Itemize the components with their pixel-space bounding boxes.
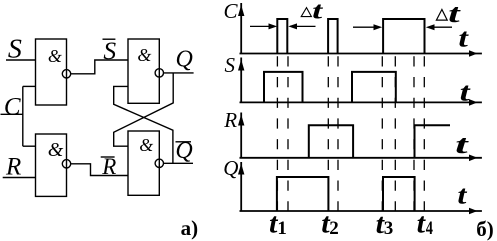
svg-text:&: & <box>139 135 153 155</box>
svg-text:R: R <box>101 154 116 179</box>
svg-text:R: R <box>5 154 21 181</box>
svg-text:t: t <box>455 130 469 159</box>
svg-text:S: S <box>225 53 236 77</box>
svg-text:S: S <box>103 36 116 65</box>
svg-text:&: & <box>48 46 62 66</box>
svg-text:а): а) <box>181 216 199 240</box>
svg-text:t: t <box>460 77 471 106</box>
svg-text:3: 3 <box>384 218 394 239</box>
svg-text:C: C <box>224 0 239 23</box>
svg-text:4: 4 <box>426 218 434 239</box>
svg-text:t: t <box>448 0 461 28</box>
svg-text:б): б) <box>476 217 494 241</box>
svg-text:Q: Q <box>223 156 238 180</box>
svg-text:Q: Q <box>175 138 192 164</box>
svg-text:&: & <box>48 139 64 161</box>
svg-text:&: & <box>137 45 151 65</box>
svg-text:t: t <box>458 23 469 52</box>
svg-text:Q: Q <box>176 47 193 73</box>
svg-text:t: t <box>417 207 426 239</box>
svg-text:C: C <box>4 93 21 120</box>
svg-text:t: t <box>457 181 467 210</box>
svg-text:S: S <box>8 34 23 64</box>
svg-text:1: 1 <box>277 218 287 239</box>
svg-text:R: R <box>223 108 237 132</box>
svg-text:2: 2 <box>329 218 339 239</box>
